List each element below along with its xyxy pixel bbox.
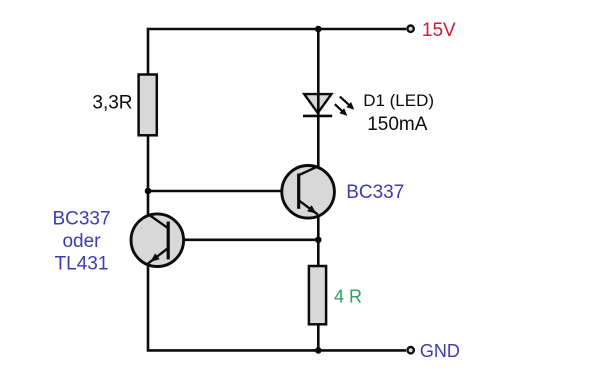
- svg-text:BC337: BC337: [346, 182, 404, 203]
- svg-text:3,3R: 3,3R: [92, 92, 132, 113]
- svg-text:D1 (LED): D1 (LED): [363, 91, 434, 110]
- svg-text:150mA: 150mA: [367, 114, 428, 135]
- svg-text:TL431: TL431: [55, 253, 109, 274]
- svg-text:BC337: BC337: [52, 209, 110, 230]
- svg-text:GND: GND: [420, 341, 460, 361]
- svg-text:15V: 15V: [422, 20, 456, 41]
- svg-text:oder: oder: [62, 231, 101, 252]
- svg-text:4 R: 4 R: [334, 286, 362, 306]
